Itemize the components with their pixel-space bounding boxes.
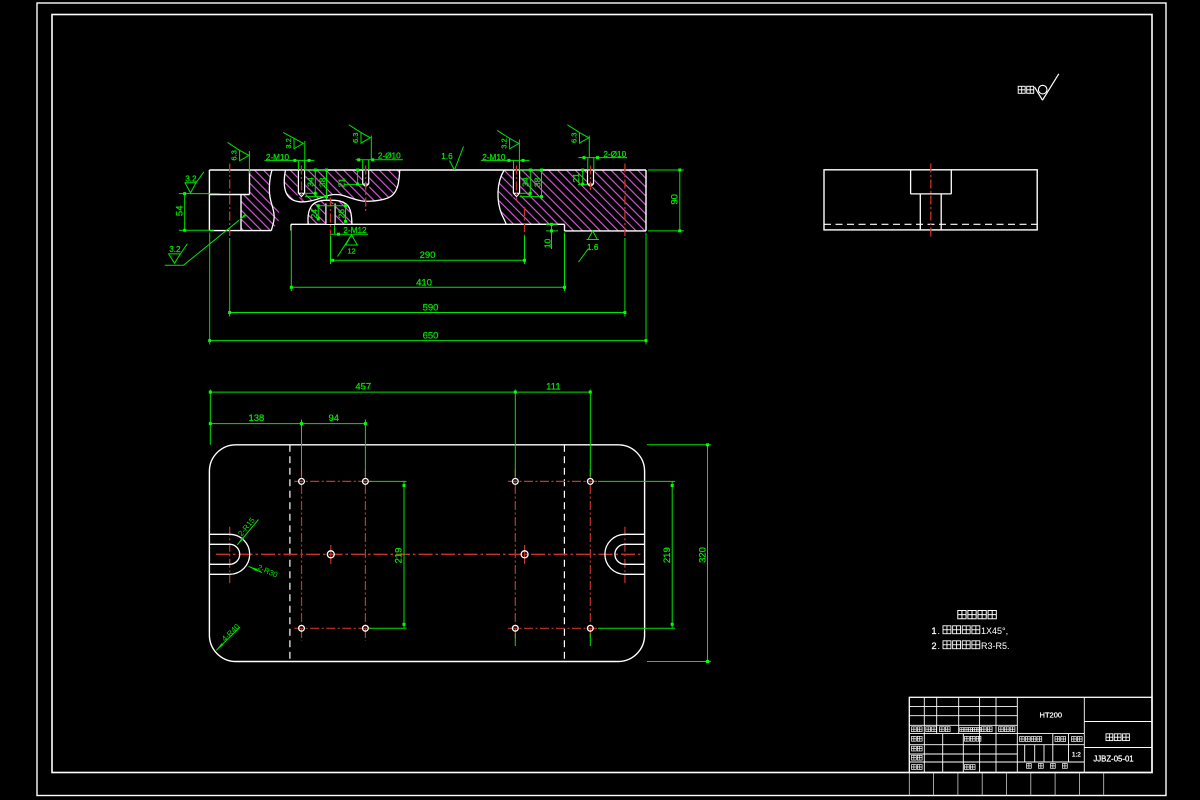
dimension 219 left bbox=[369, 481, 407, 628]
svg-text:34: 34 bbox=[521, 177, 531, 187]
svg-text:2-Ø10: 2-Ø10 bbox=[378, 151, 401, 160]
svg-text:1X45°,: 1X45°, bbox=[981, 626, 1008, 636]
svg-text:90: 90 bbox=[670, 194, 681, 205]
dimension 34 hole1 bbox=[305, 169, 327, 197]
svg-text:1:2: 1:2 bbox=[1072, 752, 1081, 759]
label 2-M10 #2 bbox=[481, 153, 530, 170]
svg-text:JJBZ-05-01: JJBZ-05-01 bbox=[1093, 755, 1133, 764]
centerline M12 boss bbox=[330, 198, 332, 237]
tech req line 2 bbox=[931, 641, 1009, 651]
svg-text:38: 38 bbox=[532, 177, 542, 187]
plan slot centerline right bbox=[624, 527, 626, 583]
svg-text:1.6: 1.6 bbox=[441, 152, 453, 161]
dimension 38 hole2 bbox=[520, 169, 543, 200]
tech req line 1 bbox=[931, 626, 1008, 636]
dimension 34 hole2 bbox=[520, 169, 542, 197]
svg-text:21: 21 bbox=[571, 173, 581, 183]
svg-text:457: 457 bbox=[355, 381, 371, 392]
svg-text:94: 94 bbox=[329, 413, 340, 424]
tapped hole M10 #2 bbox=[513, 171, 521, 198]
section spline left block bbox=[269, 170, 274, 231]
roughness 3.2 at M10 #1 bbox=[283, 132, 305, 170]
svg-text:10: 10 bbox=[543, 239, 553, 249]
roughness 6.3 left end bbox=[228, 142, 250, 173]
label 2-R30 bbox=[248, 563, 280, 580]
svg-text:3.2: 3.2 bbox=[284, 138, 293, 148]
plan row centerline bottom bbox=[294, 627, 598, 629]
plan centerline col phi10#2 bbox=[589, 469, 591, 641]
label 2-R15 bbox=[236, 515, 258, 545]
label 2-phi10 #2 bbox=[578, 150, 627, 170]
svg-text:410: 410 bbox=[416, 277, 432, 288]
section spline boss bbox=[308, 200, 352, 224]
label 2-M12 with roughness bbox=[331, 225, 368, 257]
dimension 320 bbox=[647, 443, 711, 663]
svg-text:R3-R5.: R3-R5. bbox=[981, 641, 1010, 651]
title block frame bbox=[909, 697, 1152, 772]
section view hatched top band blob bbox=[284, 170, 399, 202]
svg-text:.: . bbox=[938, 626, 941, 636]
svg-text:3.2: 3.2 bbox=[185, 175, 197, 184]
svg-text:138: 138 bbox=[248, 413, 264, 424]
plan centerline col M10#2 bbox=[514, 469, 516, 641]
svg-text:54: 54 bbox=[174, 206, 185, 217]
label 2-phi10 #1 bbox=[356, 151, 404, 170]
plan M12 hole centerline verticals bbox=[331, 545, 525, 564]
label 4-R40 bbox=[215, 622, 242, 652]
title block texts bbox=[912, 711, 1134, 770]
svg-text:21: 21 bbox=[337, 178, 347, 188]
roughness 1.6 bottom right bbox=[579, 231, 600, 262]
roughness 6.3 at phi10 #1 bbox=[349, 125, 371, 160]
centerline phi10 #1 bbox=[365, 166, 367, 213]
plan M12 holes bbox=[327, 551, 528, 558]
svg-text:6.3: 6.3 bbox=[229, 150, 238, 160]
dimension 590 bbox=[228, 238, 626, 317]
svg-text:219: 219 bbox=[662, 547, 673, 563]
dimension 10 recess depth bbox=[543, 223, 559, 249]
svg-text:3.2: 3.2 bbox=[169, 245, 181, 254]
plan small holes bbox=[299, 479, 594, 632]
plan centerline col M10#1 bbox=[301, 469, 303, 641]
svg-text:24: 24 bbox=[309, 209, 319, 219]
side view hidden line bbox=[824, 223, 1037, 225]
roughness 3.2 at M10 #2 bbox=[497, 130, 519, 170]
section spline right block bbox=[498, 170, 506, 224]
drilled hole phi10 #1 bbox=[362, 171, 370, 188]
plan centerline col phi10#1 bbox=[364, 469, 366, 641]
centerline hidden boss hole bbox=[524, 207, 526, 236]
side view notch bbox=[911, 170, 952, 194]
plan right U-slot bbox=[605, 534, 645, 574]
svg-text:219: 219 bbox=[394, 548, 405, 564]
dimension 24 M12 bbox=[309, 204, 345, 220]
plan ext stubs below right holes bbox=[515, 633, 590, 646]
dimension 410 bbox=[290, 226, 566, 291]
dimension 21 phi10 #2 bbox=[571, 169, 588, 186]
dimension 26 M12 bbox=[337, 204, 348, 223]
svg-text:38: 38 bbox=[317, 177, 327, 187]
plan hidden line left bbox=[289, 445, 291, 662]
svg-text:320: 320 bbox=[698, 547, 709, 563]
label 2-M10 #1 bbox=[265, 153, 315, 170]
tapped hole M12 in boss bbox=[325, 203, 336, 224]
section view hatched boss bbox=[308, 200, 352, 224]
svg-text:290: 290 bbox=[420, 250, 436, 261]
other-surfaces roughness symbol bbox=[1018, 74, 1059, 100]
centerline M10 #2 bbox=[516, 166, 518, 201]
svg-text:34: 34 bbox=[305, 177, 315, 187]
svg-text:6.3: 6.3 bbox=[569, 133, 578, 143]
side view rib bbox=[920, 194, 941, 230]
dimension 138 bbox=[209, 413, 367, 476]
svg-text:3.2: 3.2 bbox=[499, 138, 508, 148]
svg-text:26: 26 bbox=[337, 209, 347, 219]
side view outline bbox=[824, 170, 1037, 230]
plan hidden line right bbox=[563, 445, 565, 662]
title block grid bbox=[909, 697, 1152, 772]
side view centerline bbox=[930, 164, 932, 237]
dimension 54 bbox=[174, 192, 219, 232]
centerline phi10 #2 bbox=[590, 166, 592, 191]
dimension 38 hole1 bbox=[305, 169, 328, 200]
svg-text:650: 650 bbox=[423, 331, 439, 342]
section spline top blob bbox=[284, 170, 399, 202]
plan slot centerline left bbox=[229, 527, 231, 583]
dimension 21 phi10 #1 bbox=[337, 169, 363, 188]
centerline M10 #1 bbox=[301, 166, 303, 201]
svg-text:12: 12 bbox=[347, 246, 355, 255]
drilled hole phi10 #2 bbox=[587, 171, 595, 188]
svg-text:HT200: HT200 bbox=[1040, 711, 1063, 720]
dimension 219 right bbox=[598, 481, 675, 628]
centerline left slot bbox=[229, 164, 231, 237]
centerline right slot bbox=[624, 164, 626, 237]
dimension 290 bbox=[331, 236, 527, 264]
tapped hole M10 #1 bbox=[298, 171, 306, 198]
svg-text:.: . bbox=[938, 641, 941, 651]
dimension 650 bbox=[208, 233, 647, 345]
svg-text:590: 590 bbox=[423, 302, 439, 313]
dimension 90 bbox=[648, 169, 684, 233]
plan left U-slot bbox=[209, 534, 249, 574]
plan view outline bbox=[209, 445, 644, 662]
svg-text:6.3: 6.3 bbox=[351, 133, 360, 143]
roughness 3.2 at notch bbox=[185, 172, 204, 193]
section view hatched left block bbox=[241, 170, 280, 231]
svg-text:1: 1 bbox=[931, 626, 936, 636]
plan row centerline top bbox=[294, 480, 598, 482]
section view hatched right block bbox=[498, 170, 646, 231]
section view body outline bbox=[209, 170, 646, 231]
svg-text:111: 111 bbox=[546, 381, 560, 392]
roughness 1.6 top middle bbox=[441, 147, 463, 171]
roughness 6.3 at phi10 #2 bbox=[567, 125, 589, 158]
technical requirements title bbox=[958, 611, 966, 619]
svg-text:1.6: 1.6 bbox=[587, 243, 599, 252]
roughness 3.2 lower left with leader bbox=[165, 214, 247, 266]
bottom edge tick marks bbox=[909, 773, 1103, 796]
dimension 457 bbox=[209, 381, 592, 476]
plan main centerline bbox=[216, 553, 640, 555]
svg-text:2: 2 bbox=[931, 641, 936, 651]
